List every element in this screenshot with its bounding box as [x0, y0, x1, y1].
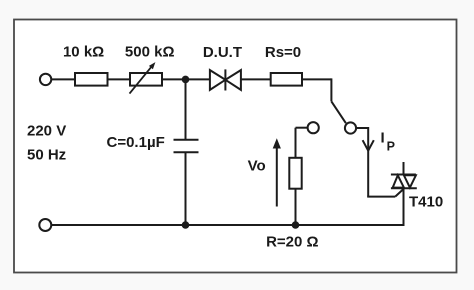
svg-text:10 kΩ: 10 kΩ	[63, 44, 104, 61]
svg-text:P: P	[387, 140, 395, 154]
svg-text:R=20 Ω: R=20 Ω	[266, 234, 318, 251]
svg-text:I: I	[381, 129, 385, 146]
svg-text:500 kΩ: 500 kΩ	[125, 44, 175, 61]
svg-text:T410: T410	[409, 194, 443, 211]
svg-text:C=0.1µF: C=0.1µF	[107, 134, 165, 151]
svg-text:220 V: 220 V	[27, 123, 66, 140]
svg-text:Vo: Vo	[248, 158, 266, 175]
svg-text:Rs=0: Rs=0	[265, 44, 301, 61]
svg-text:50 Hz: 50 Hz	[27, 147, 66, 164]
svg-text:D.U.T: D.U.T	[203, 44, 242, 61]
